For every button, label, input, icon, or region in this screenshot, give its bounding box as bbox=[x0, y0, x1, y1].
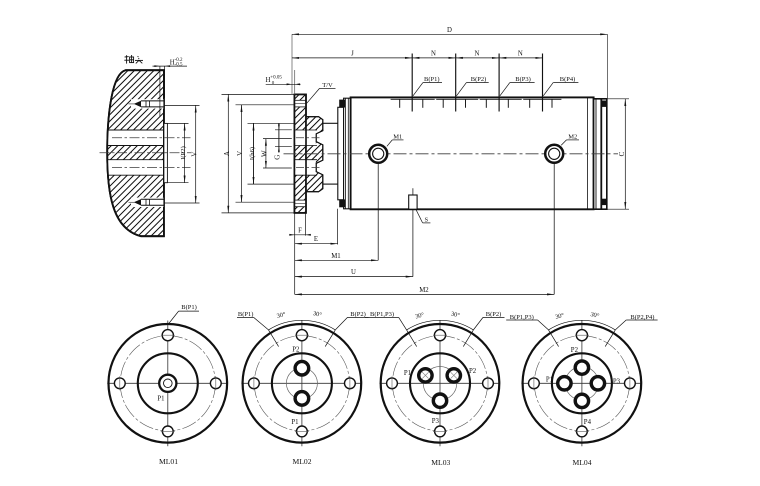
dimension H(-0.2/-0.5) face height bbox=[153, 58, 188, 117]
centerline vertical ML02 bbox=[301, 321, 303, 447]
bolt hole left bbox=[529, 378, 540, 389]
port B(P4) centerline bbox=[542, 54, 544, 112]
svg-text:B(P3): B(P3) bbox=[515, 76, 531, 83]
bolt hole left bbox=[114, 378, 125, 389]
svg-text:M2: M2 bbox=[568, 133, 577, 140]
svg-text:I(P2): I(P2) bbox=[180, 146, 187, 160]
port P3 (right) bbox=[591, 377, 604, 390]
angle arc ML03 bbox=[407, 320, 474, 330]
port P2 (top) bbox=[575, 361, 588, 374]
bolt hole band (top) bbox=[294, 100, 306, 107]
right cap seal (bottom) bbox=[602, 199, 607, 205]
svg-text:N: N bbox=[475, 50, 480, 57]
inner pilot circle ML01 bbox=[138, 353, 198, 413]
label M1 bbox=[387, 133, 404, 146]
svg-text:M1: M1 bbox=[331, 253, 340, 260]
drain port S bbox=[409, 188, 417, 276]
bolt circle ML01 bbox=[120, 336, 215, 431]
left end cap inner ring bbox=[344, 98, 351, 209]
bolt hole centerline stubs bbox=[534, 335, 630, 431]
port B(P3) centerline bbox=[498, 54, 500, 112]
bolt hole right bbox=[483, 378, 494, 389]
port pitch circle ML03 bbox=[423, 367, 457, 401]
svg-text:V: V bbox=[191, 152, 199, 157]
housing inner wall line bbox=[587, 97, 589, 209]
svg-text:P1: P1 bbox=[157, 395, 164, 402]
bolt hole centerline stubs bbox=[392, 335, 488, 431]
centerline vertical ML03 bbox=[439, 321, 441, 447]
bolt hole top bbox=[434, 330, 445, 341]
angle tick right bbox=[463, 330, 473, 347]
svg-text:F: F bbox=[298, 227, 302, 234]
pilot boss on mounting face bbox=[164, 123, 168, 182]
centerline horizontal ML02 bbox=[241, 382, 362, 384]
angle tick left bbox=[269, 330, 279, 347]
svg-text:-0.5: -0.5 bbox=[175, 62, 183, 67]
bolt hole top bbox=[576, 330, 587, 341]
rotor hub with seal grooves bbox=[306, 117, 323, 192]
centerline horizontal ML01 bbox=[107, 382, 228, 384]
svg-text:W: W bbox=[261, 150, 269, 157]
svg-text:B(P2): B(P2) bbox=[471, 76, 487, 83]
angle arc ML02 bbox=[269, 320, 336, 330]
flange outer circle ML04 bbox=[523, 324, 642, 443]
inner pilot circle ML03 bbox=[410, 353, 470, 413]
svg-text:U: U bbox=[351, 269, 356, 276]
label B(P3) bbox=[500, 76, 535, 96]
port passage band P(lower) bbox=[108, 160, 164, 176]
dimension J flange to first port bbox=[292, 50, 412, 58]
bolt hole band (bottom) bbox=[294, 200, 306, 207]
dimension M1 position bbox=[295, 253, 379, 261]
centerline upper passage bbox=[112, 137, 191, 139]
svg-text:ML04: ML04 bbox=[573, 458, 592, 467]
right end cap bbox=[594, 99, 607, 209]
svg-text:E: E bbox=[314, 236, 318, 243]
port P3 (bottom) bbox=[433, 394, 446, 407]
label M2 bbox=[561, 133, 579, 145]
svg-text:ML01: ML01 bbox=[159, 457, 178, 466]
left end cap outer ring bbox=[338, 107, 344, 200]
passage band lower (through plate and rotor) bbox=[294, 160, 317, 176]
label B(P1) bbox=[413, 76, 442, 96]
bolt hole left bbox=[249, 378, 260, 389]
dimension N port pitch 3 bbox=[499, 50, 542, 58]
port P4 (bottom) bbox=[575, 394, 588, 407]
bolt hole bottom bbox=[297, 426, 308, 437]
bolt circle ML03 bbox=[392, 336, 487, 431]
housing barrel bbox=[351, 97, 594, 209]
svg-text:+0.05: +0.05 bbox=[270, 76, 282, 81]
label S bbox=[416, 210, 430, 224]
shaft between rotor and housing bbox=[323, 123, 338, 184]
svg-text:B(P4): B(P4) bbox=[560, 76, 576, 83]
flange outer circle ML01 bbox=[109, 324, 228, 443]
port B(P1) centerline bbox=[411, 54, 413, 112]
svg-text:I(h6): I(h6) bbox=[249, 147, 256, 160]
label B(P2) with leader bbox=[473, 311, 504, 330]
gauge port M1 bbox=[369, 145, 387, 260]
centerline horizontal ML04 bbox=[521, 382, 642, 384]
svg-text:N: N bbox=[431, 50, 436, 57]
half-disc body with hatch bbox=[107, 70, 164, 236]
label B(P2,P4) with leader bbox=[615, 314, 657, 330]
centerline vertical ML01 bbox=[167, 321, 169, 447]
flange plate outline re-stroke bbox=[294, 94, 306, 212]
port thread ticks bbox=[400, 99, 552, 108]
port P1 (left) bbox=[558, 377, 571, 390]
dimension N port pitch 2 bbox=[456, 50, 499, 58]
port P2 (upper right) bbox=[447, 369, 460, 382]
dimension I(P2) pilot diameter bbox=[167, 123, 188, 182]
bolt hole right bbox=[210, 378, 221, 389]
centerline lower passage (mid section) bbox=[296, 167, 322, 169]
port pitch circle ML04 bbox=[565, 367, 598, 400]
label 轴头 (shaft head), drawn as strokes for font independence bbox=[124, 55, 143, 64]
disc outline re-stroke bbox=[107, 70, 164, 236]
centerline horizontal ML03 bbox=[380, 382, 501, 384]
dimension C housing diameter bbox=[607, 99, 629, 209]
bolt hole right bbox=[625, 378, 636, 389]
label B(P1,P3) with leader bbox=[506, 314, 548, 330]
svg-text:P3: P3 bbox=[432, 418, 440, 425]
svg-text:B(P2): B(P2) bbox=[350, 311, 366, 318]
svg-text:J: J bbox=[351, 50, 354, 57]
angle tick right bbox=[325, 330, 335, 347]
svg-text:ML02: ML02 bbox=[293, 457, 312, 466]
dimension W seal diameter bbox=[261, 139, 292, 168]
dimension G passage bore bbox=[274, 123, 292, 159]
svg-text:B(P1): B(P1) bbox=[181, 304, 197, 311]
svg-text:B(P2): B(P2) bbox=[486, 311, 502, 318]
bolt hole centerline stubs bbox=[254, 335, 350, 431]
flange outer circle ML02 bbox=[243, 324, 362, 443]
bolt hole right bbox=[345, 378, 356, 389]
bolt hole bottom bbox=[435, 426, 446, 437]
bolt hole left bbox=[387, 378, 398, 389]
label B(P1,P3) with leader bbox=[365, 311, 407, 330]
upper mounting bolt bbox=[129, 99, 164, 108]
flange outer circle ML03 bbox=[381, 324, 500, 443]
bolt hole bottom bbox=[577, 426, 588, 437]
bolt circle ML04 bbox=[534, 336, 629, 431]
svg-text:P1: P1 bbox=[546, 376, 553, 383]
label T/V rotor thread bbox=[307, 82, 336, 103]
svg-text:ML03: ML03 bbox=[431, 458, 450, 467]
dimension M2 position bbox=[295, 287, 555, 295]
dimension V bolt circle (section) bbox=[236, 105, 295, 202]
angle tick right bbox=[605, 330, 615, 347]
gauge port M2 bbox=[545, 145, 563, 295]
port land strip on top bbox=[391, 98, 562, 100]
angle tick left bbox=[407, 330, 417, 347]
main centerline bbox=[284, 153, 619, 155]
svg-text:N: N bbox=[518, 50, 523, 57]
svg-text:P2: P2 bbox=[571, 347, 579, 354]
angle arc ML04 bbox=[549, 320, 616, 330]
svg-text:P2: P2 bbox=[292, 347, 300, 354]
dimension U drain position bbox=[295, 269, 413, 277]
svg-text:P1: P1 bbox=[404, 370, 411, 377]
dimension D overall length bbox=[292, 27, 607, 98]
svg-text:B(P1,P3): B(P1,P3) bbox=[370, 311, 394, 318]
dimension I(h6) shaft diameter bbox=[248, 123, 295, 184]
port P1 (upper left) bbox=[419, 369, 432, 382]
svg-text:P3: P3 bbox=[613, 378, 621, 385]
svg-text:P4: P4 bbox=[584, 419, 592, 426]
dimension A flange diameter bbox=[222, 94, 295, 212]
svg-text:P1: P1 bbox=[291, 419, 298, 426]
svg-text:A: A bbox=[223, 151, 231, 156]
bolt hole top bbox=[296, 330, 307, 341]
label B(P1) with leader bbox=[169, 304, 199, 323]
svg-text:B(P1): B(P1) bbox=[424, 76, 440, 83]
port P2 (top) bbox=[295, 361, 309, 375]
svg-text:C: C bbox=[618, 151, 626, 156]
rotor outline re-stroke bbox=[306, 117, 323, 192]
svg-text:T/V: T/V bbox=[322, 82, 333, 89]
label B(P2) with leader bbox=[335, 311, 368, 330]
passage band upper (through plate and rotor) bbox=[294, 130, 317, 146]
dimension F plate thickness bbox=[289, 213, 311, 236]
centerline upper passage (mid section) bbox=[296, 137, 322, 139]
dimension H(+0.05/0) face step bbox=[266, 34, 301, 94]
centerline vertical ML04 bbox=[581, 321, 583, 447]
label B(P4) bbox=[543, 76, 578, 96]
svg-text:M2: M2 bbox=[419, 287, 429, 294]
svg-text:D: D bbox=[447, 27, 452, 34]
dimension V (bolt circle, disc view) bbox=[164, 105, 200, 203]
port B(P2) centerline bbox=[455, 54, 457, 112]
flange plate (section) bbox=[294, 94, 306, 212]
angle tick left bbox=[549, 330, 559, 347]
centerline main (disc) bbox=[100, 152, 192, 154]
left extension line bbox=[294, 213, 296, 294]
inner pilot circle ML02 bbox=[272, 353, 332, 413]
center port P1 bbox=[159, 375, 176, 392]
dimension N port pitch 1 bbox=[412, 50, 456, 58]
bolt circle ML02 bbox=[254, 336, 349, 431]
port pitch circle ML02 bbox=[286, 368, 317, 399]
label B(P2) bbox=[457, 76, 489, 96]
right cap seal (top) bbox=[602, 101, 607, 107]
bolt hole bottom bbox=[162, 426, 173, 437]
label B(P1) with leader bbox=[237, 311, 269, 330]
svg-text:B(P1): B(P1) bbox=[238, 311, 254, 318]
port P1 (bottom) bbox=[295, 392, 309, 406]
port passage band P(upper) bbox=[108, 130, 164, 146]
svg-text:P2: P2 bbox=[469, 368, 477, 375]
bolt hole centerline stubs bbox=[120, 335, 216, 431]
svg-text:G: G bbox=[274, 155, 282, 160]
lower mounting bolt bbox=[129, 198, 164, 207]
bolt hole top bbox=[162, 330, 173, 341]
svg-text:V: V bbox=[236, 151, 244, 156]
inner pilot circle ML04 bbox=[552, 353, 612, 413]
centerline lower passage bbox=[112, 167, 191, 169]
svg-text:M1: M1 bbox=[393, 133, 402, 140]
left cap seal (bottom) bbox=[339, 199, 345, 207]
left cap seal (top) bbox=[339, 100, 345, 108]
dimension E flange to cap bbox=[295, 209, 338, 245]
